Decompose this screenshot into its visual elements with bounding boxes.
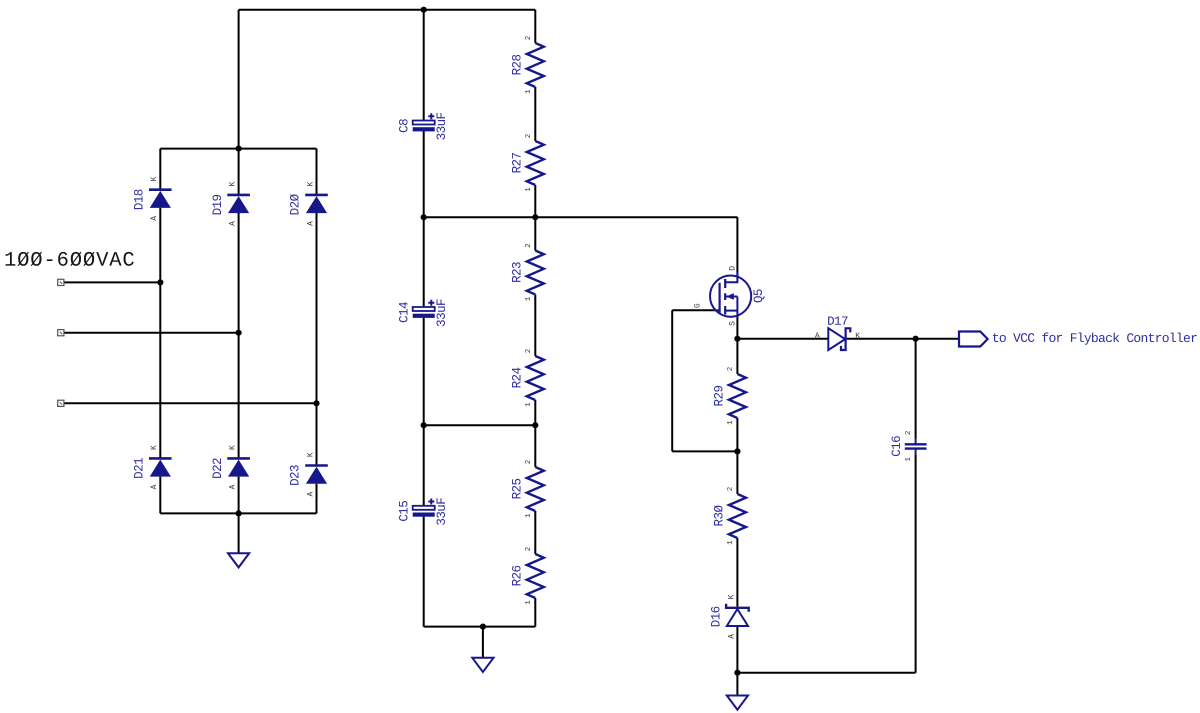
svg-text:33uF: 33uF [435,498,449,526]
svg-text:C15: C15 [397,501,411,522]
wire res column seg1 [534,10,536,43]
wire AC phase 1 [64,281,160,283]
junction AC2 / colB [236,330,242,336]
junction top bus / cap column [421,7,427,13]
svg-text:R25: R25 [510,479,524,500]
wire colB vertical top [238,10,240,195]
svg-text:1: 1 [525,600,533,605]
svg-text:A: A [815,332,820,341]
wire R28-R27 link [534,87,536,141]
svg-text:1: 1 [905,457,913,462]
resistor R26 [527,554,544,598]
svg-text:R23: R23 [510,262,524,283]
svg-text:K: K [306,452,315,457]
wire R23-R24 link [534,295,536,357]
port to VCC for Flyback Controller [959,332,988,347]
resistor R30 [729,494,746,538]
svg-text:C14: C14 [397,302,411,323]
svg-text:D16: D16 [710,606,724,627]
terminal AC phase 2 [58,330,64,336]
wire cap column seg3 [423,318,425,506]
svg-text:2: 2 [905,431,913,436]
capacitor C14 [413,300,435,318]
wire mid bus to MOSFET drain [424,216,738,218]
wire gate loop vertical [671,310,673,451]
svg-text:K: K [229,445,238,450]
diode D20 [305,195,328,213]
terminal AC phase 3 [58,400,64,406]
resistor R25 [527,467,544,511]
svg-text:A: A [150,484,159,489]
wire lower bus [424,424,536,426]
junction output node / C16 [913,336,919,342]
wire bottom rail right [737,672,915,674]
resistor R24 [527,356,544,400]
wire colA lower [159,477,161,514]
svg-text:2: 2 [525,243,533,248]
wire colB lower [238,477,240,514]
svg-text:1: 1 [525,402,533,407]
svg-text:C16: C16 [890,436,904,457]
wire R30 upper pin [736,451,738,494]
diode D19 [227,195,250,213]
svg-text:1: 1 [525,513,533,518]
junction right bottom / ground [734,670,740,676]
svg-text:1ØØ-6ØØVAC: 1ØØ-6ØØVAC [4,250,136,273]
wire AC phase 3 [64,402,317,404]
transistor Q5 (N-MOSFET) [710,272,751,318]
wire gate horizontal [672,309,714,311]
svg-text:R3Ø: R3Ø [713,505,727,527]
wire R29 upper pin [736,339,738,374]
svg-text:1: 1 [727,540,735,545]
junction bridge bottom / ground [236,510,242,516]
diode D17 [828,328,850,350]
wire C16 upper [915,339,917,439]
svg-text:A: A [229,221,238,226]
svg-text:K: K [150,176,159,181]
ground (bridge) [228,553,249,567]
wire colA upper [159,149,161,190]
junction gate loop / R29 R30 [734,448,740,454]
wire bridge bottom rail [160,512,316,514]
svg-text:A: A [306,221,315,226]
svg-text:1: 1 [525,89,533,94]
svg-text:A: A [306,492,315,497]
svg-text:1: 1 [525,296,533,301]
svg-text:33uF: 33uF [435,112,449,140]
wire R25-R26 link [534,511,536,554]
svg-text:S: S [728,321,737,326]
svg-text:C8: C8 [397,119,411,133]
wire D16 anode down [736,626,738,673]
wire C16 lower [915,454,917,672]
svg-text:K: K [229,182,238,187]
junction lower bus / res column [532,422,538,428]
resistor R23 [527,251,544,295]
capacitor C8 [413,113,435,131]
junction mid bus / cap column [421,214,427,220]
resistor R28 [527,43,544,87]
svg-text:1: 1 [525,187,533,192]
terminal AC phase 1 [58,279,64,285]
junction bottom rail / ground [480,624,486,630]
junction AC3 / colC [313,400,319,406]
svg-text:D2Ø: D2Ø [289,193,303,215]
svg-text:D18: D18 [133,189,147,210]
svg-text:R29: R29 [713,386,727,407]
wire colC lower [316,484,318,514]
diode D22 [227,458,250,476]
junction mid bus / res column [532,214,538,220]
svg-text:G: G [694,303,703,308]
wire R24 lower pin [534,400,536,425]
svg-text:A: A [229,484,238,489]
junction source node [734,336,740,342]
svg-text:2: 2 [525,36,533,41]
svg-text:R28: R28 [510,55,524,76]
svg-text:K: K [855,332,860,341]
wire D17 cathode to port [846,338,959,340]
diode D18 [149,190,172,208]
svg-text:D21: D21 [133,458,147,479]
wire drain drop [736,217,738,275]
svg-text:1: 1 [727,420,735,425]
wire cap column seg1 [423,10,425,121]
svg-text:R26: R26 [510,566,524,587]
svg-text:K: K [727,594,736,599]
svg-text:K: K [306,182,315,187]
zener diode D16 [726,604,749,626]
wire colC middle [316,212,318,465]
wire mid ground stem [482,627,484,658]
wire AC phase 2 [64,332,239,334]
svg-text:2: 2 [727,487,735,492]
svg-text:2: 2 [525,134,533,139]
diode D21 [149,458,172,476]
svg-text:D: D [728,266,737,271]
svg-text:2: 2 [525,547,533,552]
svg-text:2: 2 [525,349,533,354]
wire colA middle [159,208,161,459]
diode D23 [305,466,328,484]
svg-text:33uF: 33uF [435,299,449,327]
svg-text:2: 2 [525,460,533,465]
svg-text:K: K [150,445,159,450]
wire top bus [239,9,536,11]
wire right ground stem [736,673,738,696]
wire colB middle [238,212,240,458]
wire bottom rail mid [424,626,536,628]
junction lower bus / cap column [421,422,427,428]
svg-text:D22: D22 [211,458,225,479]
capacitor C16 [905,439,927,455]
ground (output) [727,696,748,710]
svg-text:D17: D17 [827,315,848,329]
wire R25 upper pin [534,425,536,467]
wire gate loop bottom [672,450,737,452]
svg-text:to VCC for Flyback Controller: to VCC for Flyback Controller [992,331,1197,346]
junction bridge top / colB [236,146,242,152]
svg-text:Q5: Q5 [752,289,766,303]
resistor R27 [527,141,544,185]
svg-text:D23: D23 [289,465,303,486]
wire cap column seg4 [423,517,425,627]
wire source drop [736,317,738,339]
wire source to D17 anode [737,338,828,340]
svg-text:A: A [727,634,736,639]
wire R29 lower pin [736,418,738,451]
ground (divider) [472,658,493,672]
wire R23 upper pin [534,217,536,250]
capacitor C15 [413,499,435,517]
wire R27 lower pin [534,185,536,217]
svg-text:D19: D19 [211,194,225,215]
junction AC1 / colA [157,279,163,285]
wire bridge ground stem [238,513,240,553]
wire bridge top rail [160,148,316,150]
wire R26 lower pin [534,598,536,627]
wire cap column seg2 [423,131,425,307]
wire colC upper [316,149,318,195]
svg-text:R27: R27 [510,153,524,174]
svg-text:2: 2 [727,367,735,372]
wire R30 to D16 [736,538,738,607]
svg-text:A: A [150,216,159,221]
resistor R29 [729,374,746,418]
svg-text:R24: R24 [510,368,524,389]
